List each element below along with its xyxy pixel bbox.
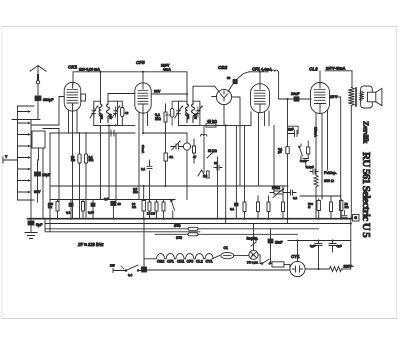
label 18mA <box>314 127 318 137</box>
svg-text:CF3: CF3 <box>187 260 194 264</box>
capacitor 30nF <box>279 92 311 101</box>
antenna <box>30 66 46 97</box>
svg-text:80V: 80V <box>154 90 161 94</box>
wire antenna to tuner <box>12 101 40 120</box>
svg-text:ZF = 128 kHz: ZF = 128 kHz <box>77 242 104 247</box>
label CB2 <box>218 65 228 70</box>
resistor IF2 grid leak <box>166 101 179 125</box>
wire left vertical 1 <box>30 120 32 220</box>
svg-text:kΩ: kΩ <box>132 205 137 209</box>
tube CL2 <box>311 83 330 114</box>
pot circle volume <box>143 133 191 200</box>
svg-text:200: 200 <box>186 114 190 119</box>
wire CB2 down <box>223 105 225 126</box>
svg-text:0,4: 0,4 <box>128 273 133 277</box>
label 200 IF2a <box>186 114 190 119</box>
label 0,5 MOhm <box>133 187 138 194</box>
grid cap box CK1 <box>81 94 86 101</box>
resistor 30k mid <box>132 186 145 219</box>
wire transformer bottom <box>350 106 352 219</box>
wire 68k cluster to bus <box>217 157 219 219</box>
svg-text:CF1: CF1 <box>167 260 174 264</box>
wire CL2 anode <box>320 71 352 88</box>
wire bus mid y133 <box>50 132 135 134</box>
speaker coil secondary <box>359 92 363 101</box>
svg-text:CY1: CY1 <box>206 260 213 264</box>
fuse lamp FU 0,2A <box>247 250 259 264</box>
svg-text:200: 200 <box>194 114 198 119</box>
wire IF1 B+ feed <box>100 72 102 101</box>
resistor 45k <box>206 120 251 128</box>
wire CL2 cathode right <box>330 97 341 219</box>
svg-text:10nF: 10nF <box>275 241 282 245</box>
output transformer primary <box>348 87 354 105</box>
capacitor under CF1 <box>230 203 238 219</box>
svg-text:1nF: 1nF <box>288 128 294 132</box>
inductor anode choke <box>268 70 279 99</box>
svg-text:MΩ: MΩ <box>155 117 161 121</box>
label 207V 42mA <box>325 67 352 71</box>
tube CF3 <box>135 83 151 113</box>
svg-text:CF3: CF3 <box>136 60 145 65</box>
svg-text:4,4mA: 4,4mA <box>261 68 272 72</box>
speaker driver <box>368 92 376 102</box>
svg-text:kΩ: kΩ <box>48 205 53 209</box>
ground <box>25 233 37 239</box>
dial lamp C1 <box>221 246 249 259</box>
svg-text:kΩ: kΩ <box>71 158 76 162</box>
wire verticals under CF1 <box>232 97 245 203</box>
svg-text:CK1: CK1 <box>68 64 78 69</box>
resistor 500ohm right cluster <box>308 199 320 219</box>
wire left verticals <box>39 133 92 232</box>
capacitor 5uF <box>28 219 43 232</box>
mains switch bottom left <box>120 262 144 277</box>
tube CB2 <box>216 89 231 104</box>
svg-text:RU 561 Selectric U 5: RU 561 Selectric U 5 <box>360 152 372 238</box>
resistor 20k <box>71 133 81 219</box>
IF transformer 1 secondary <box>107 101 118 125</box>
mains dropper resistor <box>328 265 353 272</box>
IF1 primary trimmer <box>90 106 99 119</box>
tube CK1 <box>64 82 81 111</box>
svg-text:(LW): (LW) <box>176 235 182 239</box>
label CF1 4,4mA <box>249 67 272 72</box>
capacitor 1nF <box>288 126 299 136</box>
component row left line <box>50 199 175 201</box>
svg-text:5µF: 5µF <box>36 223 43 227</box>
svg-text:68V: 68V <box>34 190 41 194</box>
wire CF3 anode up <box>142 72 144 85</box>
capacitor 0,1 x308 <box>307 141 310 158</box>
pot 68k with arrow <box>207 149 217 158</box>
wire IF2 out to CB2 <box>179 97 226 126</box>
top bus B+ <box>101 72 188 101</box>
svg-text:15kΩ: 15kΩ <box>272 186 280 190</box>
resistor 50k right <box>340 199 350 219</box>
svg-text:Y: Y <box>5 155 8 159</box>
label 30mA <box>141 145 145 154</box>
svg-text:30nF: 30nF <box>291 92 300 96</box>
svg-text:CL2: CL2 <box>196 260 203 264</box>
svg-text:Regelg.: Regelg. <box>247 237 259 241</box>
svg-text:µF: µF <box>278 150 282 154</box>
svg-text:CL2: CL2 <box>309 67 318 72</box>
capacitor 0,1 x149 <box>141 160 152 171</box>
capacitor 25uF <box>303 159 309 169</box>
resistor oval LW <box>155 233 298 240</box>
label 3+13 <box>300 159 307 163</box>
page border right <box>396 27 398 319</box>
label 68V <box>34 190 41 194</box>
label 200 IF2b <box>194 114 198 119</box>
svg-text:0,05: 0,05 <box>88 211 94 215</box>
wire CL2 drops <box>316 111 328 199</box>
pot 1,5k bottom <box>198 170 209 178</box>
wire mains right end <box>343 268 350 270</box>
IF2 primary trimmer <box>175 106 184 119</box>
svg-text:0,1µF: 0,1µF <box>306 165 314 169</box>
svg-text:0,5: 0,5 <box>104 197 109 201</box>
heater chain 6 humps <box>144 254 220 259</box>
svg-text:220·0,38 mA: 220·0,38 mA <box>79 68 100 72</box>
IF transformer 2 secondary <box>192 101 200 125</box>
wire CF1 drops <box>251 111 274 193</box>
svg-text:8µF: 8µF <box>310 244 315 248</box>
svg-text:200: 200 <box>109 114 113 119</box>
label CK1 <box>68 64 78 69</box>
IF2 secondary trimmer <box>194 106 203 119</box>
svg-text:10: 10 <box>214 161 218 165</box>
bus second <box>45 219 351 269</box>
svg-text:4Ω: 4Ω <box>169 155 174 159</box>
label ZF 128 kHz <box>77 242 104 247</box>
svg-text:45 kΩ: 45 kΩ <box>207 120 217 124</box>
svg-text:8µF: 8µF <box>337 244 342 248</box>
resistor 150k <box>48 200 59 219</box>
field coil Feldsp 880ohm <box>314 171 337 219</box>
tube CY1 <box>290 254 305 277</box>
svg-text:10: 10 <box>118 202 122 206</box>
resistor 0,1M <box>84 133 94 219</box>
band selector coil L1 <box>18 106 35 200</box>
svg-text:680pF: 680pF <box>43 98 54 102</box>
svg-text:Feldsp.: Feldsp. <box>324 171 337 175</box>
output transformer core <box>355 88 357 106</box>
terminal mains left <box>110 264 120 273</box>
resistor row right4 <box>282 186 285 219</box>
speaker magnet frame <box>361 86 373 108</box>
capacitor 0,1uF right top <box>306 165 318 174</box>
terminal Y aerial input <box>3 155 18 163</box>
wire CK1 cathode drops <box>69 110 78 219</box>
terminal box right <box>351 215 359 222</box>
svg-text:CB2: CB2 <box>157 260 164 264</box>
svg-text:207V·42mA: 207V·42mA <box>326 67 346 71</box>
label 220V 4mA <box>161 64 171 72</box>
wire left horizontals into CK1 <box>31 97 64 203</box>
wire IF1 to CF3 grid <box>94 94 135 126</box>
svg-text:18mA: 18mA <box>314 127 318 137</box>
capacitor right before bus <box>342 211 347 218</box>
resistor 50k row right <box>243 202 246 219</box>
wire CF3 drops <box>139 112 148 200</box>
capacitor 0,05 <box>88 200 95 219</box>
resistor row right3 <box>267 196 270 219</box>
svg-text:DW: DW <box>110 264 115 268</box>
svg-text:0,1: 0,1 <box>66 211 71 215</box>
svg-text:3+13: 3+13 <box>300 159 307 163</box>
label 200 IF1b <box>109 114 113 119</box>
wire cap drops <box>319 247 333 269</box>
svg-text:880 Ω: 880 Ω <box>324 179 334 183</box>
page border bottom <box>2 318 398 320</box>
wire CY1 to caps <box>298 241 329 270</box>
svg-text:LB LW: LB LW <box>147 212 156 216</box>
svg-text:CY1: CY1 <box>291 254 300 259</box>
pot Regelg <box>247 224 259 251</box>
heater chain labels <box>157 260 213 264</box>
svg-text:kΩ: kΩ <box>345 205 350 209</box>
switch row <box>171 200 175 219</box>
main bus ground bold <box>28 218 352 220</box>
choke DEC bumps <box>201 125 207 172</box>
svg-text:MΩ: MΩ <box>89 158 94 162</box>
svg-text:MΩ: MΩ <box>133 190 138 194</box>
heater feed vertical <box>143 219 145 267</box>
svg-text:0,1: 0,1 <box>230 207 235 211</box>
svg-text:CF1: CF1 <box>252 67 261 72</box>
resistor IF1 damping <box>118 101 129 125</box>
IF transformer 1 primary <box>94 101 102 125</box>
band selector taps <box>18 110 32 193</box>
pot 15k horizontal <box>270 186 290 198</box>
capacitor 0,1u row <box>66 200 73 219</box>
resistor 0,1M CF3 screen <box>155 104 167 144</box>
speaker cone <box>376 88 382 105</box>
capacitor 8uF b <box>329 241 342 249</box>
capacitor under CF1 midrow <box>278 147 289 154</box>
wire right cluster line <box>300 196 341 199</box>
label 220V 0,38mA anode <box>78 68 101 72</box>
title Zerdik <box>362 121 371 144</box>
svg-text:CB2: CB2 <box>218 65 228 70</box>
label CF3 <box>136 60 145 65</box>
capacitor 8uF a <box>310 241 322 249</box>
IF1 secondary trimmer <box>112 106 121 119</box>
resistor right cluster 2 <box>330 196 333 219</box>
wire CB2 cathode down <box>225 125 227 223</box>
ZF bracket <box>45 219 200 232</box>
capacitor 0,5uF mid <box>104 197 121 219</box>
IF transformer 2 primary <box>179 101 189 125</box>
fuse blob mains <box>142 267 147 272</box>
page border left <box>1 27 3 319</box>
svg-text:0,1: 0,1 <box>141 167 146 171</box>
capacitor trimmer left of pot <box>171 141 183 151</box>
resistor pair LB <box>147 171 158 219</box>
wire long vertical x287.5 <box>287 99 289 224</box>
resistor row right2 <box>257 196 260 219</box>
capacitor 10nF bottom <box>268 229 282 262</box>
wire CF1 anode up <box>259 72 261 86</box>
page border top <box>2 26 398 28</box>
wire drops under IF1 <box>101 125 117 201</box>
svg-text:CK1: CK1 <box>177 260 184 264</box>
label CL2 <box>309 67 318 72</box>
svg-text:220V~: 220V~ <box>344 265 354 269</box>
svg-text:Zerdik: Zerdik <box>362 121 371 144</box>
resistor oval KW <box>45 224 319 231</box>
svg-text:FU 0,2A: FU 0,2A <box>247 261 259 265</box>
filter line top <box>288 240 351 242</box>
svg-text:200: 200 <box>99 114 103 119</box>
resistor row4 <box>162 200 165 219</box>
wire mains rail bottom <box>147 269 290 271</box>
capacitor 10uF <box>35 160 52 202</box>
capacitor B mark <box>105 130 121 136</box>
resistor row3 <box>82 200 85 219</box>
svg-text:40: 40 <box>125 111 129 115</box>
wire CK1 anode to label <box>73 72 78 84</box>
label 200 IF1a <box>99 114 103 119</box>
title RU 561 Selectric U 5 <box>360 152 372 238</box>
AVC line <box>50 185 288 187</box>
svg-text:0,1: 0,1 <box>293 196 298 200</box>
capacitor 0,1 right <box>291 190 298 200</box>
svg-text:4mA: 4mA <box>163 68 171 72</box>
resistor 4ohm <box>164 144 174 186</box>
capacitor 50pF osc <box>227 72 249 92</box>
svg-text:50: 50 <box>227 76 231 80</box>
switch under CF1 <box>299 144 303 160</box>
fuse box 0,2A <box>272 262 290 269</box>
tube CF1 <box>251 84 270 113</box>
svg-text:30mA: 30mA <box>141 145 145 154</box>
svg-text:10µF: 10µF <box>42 173 51 177</box>
capacitor 10pF <box>214 161 222 170</box>
wire IF2 primary feed <box>193 86 220 101</box>
label 80V anode line <box>151 90 187 95</box>
svg-text:(KW): (KW) <box>174 224 181 228</box>
switch mains secondary <box>258 255 272 265</box>
resistor 47 <box>193 139 197 163</box>
svg-text:C1: C1 <box>224 246 228 250</box>
coupling coil box <box>32 131 45 148</box>
capacitor antenna 680pF <box>35 96 54 102</box>
label 15V <box>330 95 338 99</box>
